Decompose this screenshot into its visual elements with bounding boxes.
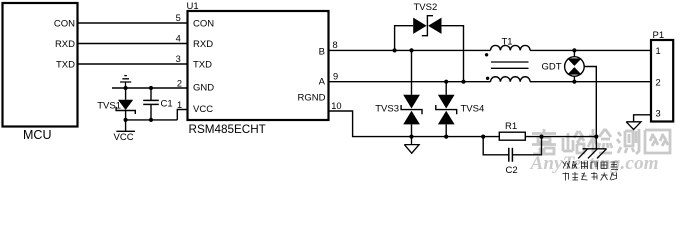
svg-text:CON: CON [193, 18, 214, 29]
wire TXD [78, 63, 188, 65]
wire GDT third electrode [584, 67, 596, 137]
node C1 top [149, 86, 153, 90]
svg-text:TVS3: TVS3 [375, 104, 399, 115]
node earth junction [594, 135, 598, 139]
wire B line [329, 49, 491, 51]
svg-text:A: A [319, 76, 326, 87]
node C2 left branch [481, 135, 485, 139]
svg-text:C2: C2 [506, 165, 518, 176]
node TVS4 bottom on rail [444, 135, 448, 139]
node TVS2 left on B [393, 48, 397, 52]
node C1 bottom [149, 118, 153, 122]
svg-text:GDT: GDT [541, 61, 561, 72]
svg-text:P1: P1 [653, 30, 665, 41]
svg-text:8: 8 [333, 40, 338, 50]
svg-text:2: 2 [177, 78, 182, 88]
wire VCC bottom [126, 119, 178, 121]
wire VCC pin stub [177, 110, 187, 120]
svg-text:TXD: TXD [193, 59, 212, 70]
svg-text:GND: GND [193, 82, 214, 93]
resistor R1 [499, 132, 525, 140]
wire rail after R1 [525, 136, 598, 138]
svg-text:AnyTesting.com: AnyTesting.com [530, 153, 659, 174]
node GDT bottom on A [572, 80, 576, 84]
svg-text:VCC: VCC [193, 104, 213, 115]
shield note line 1 [563, 161, 619, 170]
capacitor C1 [143, 88, 159, 120]
svg-text:10: 10 [331, 101, 341, 111]
svg-text:TVS1: TVS1 [97, 100, 121, 111]
TVS3 bidirectional suppressor [401, 50, 422, 136]
wire RXD [78, 43, 188, 45]
svg-text:RXD: RXD [193, 39, 213, 50]
ground symbol at P1 pin 3 [626, 122, 641, 130]
wire A line after T1 [530, 81, 651, 83]
svg-text:TVS4: TVS4 [461, 104, 485, 115]
transformer T1 [491, 45, 531, 81]
T1 phase dot bottom [486, 77, 489, 80]
svg-text:U1: U1 [187, 1, 199, 12]
wire GND net [112, 87, 188, 89]
VCC power symbol [114, 120, 136, 143]
svg-text:RXD: RXD [55, 39, 75, 50]
node TVS2 right on A [461, 80, 465, 84]
connector P1 body [651, 40, 673, 122]
char wang [645, 130, 670, 153]
char jian [588, 129, 612, 154]
watermark gray logo text [532, 129, 670, 154]
TVS4 bidirectional suppressor [436, 82, 457, 137]
ground symbol under TVS3 [404, 137, 419, 154]
svg-text:5: 5 [176, 13, 181, 23]
char yu [563, 131, 584, 153]
node GDT top on B [572, 48, 576, 52]
svg-text:B: B [319, 46, 325, 57]
svg-text:9: 9 [333, 72, 338, 82]
earth shield symbol [578, 137, 606, 159]
svg-text:RSM485ECHT: RSM485ECHT [189, 123, 266, 136]
svg-text:1: 1 [656, 46, 661, 56]
node TVS4 top on A [444, 80, 448, 84]
svg-text:C1: C1 [161, 99, 173, 110]
node TVS3 bottom on rail [409, 135, 413, 139]
wire A line [329, 81, 491, 83]
wire P1 pin 3 [634, 115, 651, 122]
TVS2 bidirectional suppressor [395, 16, 464, 82]
shield note line 2 [563, 172, 618, 181]
svg-text:R1: R1 [505, 121, 517, 132]
char ce [617, 129, 639, 154]
gas discharge tube GDT [565, 50, 585, 81]
MCU block [3, 3, 78, 127]
node TVS1 top [124, 86, 128, 90]
node TVS1 bottom [124, 118, 128, 122]
node TVS3 top on B [409, 48, 413, 52]
wire RGND from pin 10 [329, 111, 500, 137]
TVS1 zener diode [116, 88, 135, 120]
svg-text:2: 2 [656, 77, 661, 87]
svg-text:3: 3 [656, 109, 661, 119]
svg-text:1: 1 [177, 100, 182, 110]
ground symbol on GND net [120, 76, 131, 88]
svg-text:TXD: TXD [56, 59, 75, 70]
svg-text:3: 3 [176, 54, 181, 64]
svg-text:TVS2: TVS2 [414, 2, 438, 13]
T1 phase dot top [485, 53, 488, 56]
svg-text:4: 4 [176, 33, 181, 43]
node C2 right rejoin [539, 135, 543, 139]
wire B line after T1 [530, 49, 651, 51]
char jia [532, 129, 556, 154]
svg-text:CON: CON [54, 18, 75, 29]
IC U1 RSM485ECHT transceiver body [188, 11, 329, 120]
capacitor C2 [483, 137, 541, 162]
svg-text:T1: T1 [502, 36, 513, 47]
svg-text:VCC: VCC [114, 132, 134, 143]
svg-text:MCU: MCU [23, 128, 51, 142]
svg-text:RGND: RGND [298, 93, 326, 104]
wire CON [78, 22, 188, 24]
